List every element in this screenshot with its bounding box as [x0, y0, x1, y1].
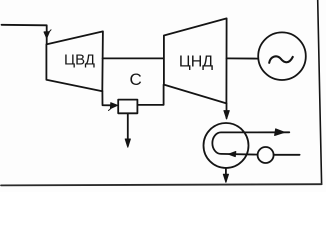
- wire: crossover pipe / separator top edge: [103, 57, 164, 59]
- arrowhead: condensate down: [223, 174, 228, 182]
- arrowhead: cooling water outlet (right): [275, 129, 285, 136]
- wire: drain box to ЦНД-side vertical: [137, 85, 163, 105]
- arrowhead: cooling water into bend (left): [228, 152, 235, 157]
- wire: ЦВД drain down then right into drain box: [102, 91, 111, 105]
- wire: ЦНД exhaust down to condenser: [226, 103, 228, 118]
- arrowhead: steam into ЦВД: [44, 30, 51, 38]
- drain box under separator: [118, 100, 137, 114]
- wire: live steam inlet (top-left horizontal then down): [2, 25, 47, 44]
- page border: right edge: [318, 0, 322, 184]
- turbine ЦНД (LP cylinder): [164, 18, 227, 103]
- wire: drain arrow down from box: [127, 113, 129, 145]
- page border: bottom edge: [1, 184, 322, 185]
- wire: condensate drain below condenser: [225, 168, 227, 181]
- pump circle: [258, 147, 274, 163]
- condenser circle: [204, 123, 249, 168]
- arrowhead: into drain box: [109, 103, 118, 111]
- turbine ЦВД (HP cylinder): [46, 31, 103, 91]
- svg-text:ЦНД: ЦНД: [179, 53, 213, 70]
- wire: cooling water supply from right: [274, 154, 300, 156]
- arrowhead: exhaust into condenser: [224, 111, 229, 119]
- generator shaft wire: [227, 57, 259, 59]
- cooling water U-tube through condenser: [212, 132, 289, 154]
- svg-text:ЦВД: ЦВД: [64, 51, 95, 68]
- svg-text:С: С: [129, 70, 141, 89]
- arrowhead: drain down: [125, 139, 130, 147]
- generator circle: [258, 32, 306, 80]
- generator sine symbol: [269, 56, 293, 62]
